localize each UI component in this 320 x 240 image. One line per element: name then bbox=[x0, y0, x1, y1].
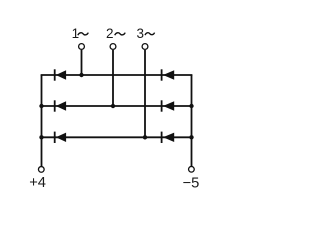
wire: row 2 horizontal bbox=[41, 105, 193, 107]
wire: row 1 horizontal bbox=[41, 74, 193, 76]
diode D4 (row 1 right) bbox=[162, 69, 175, 80]
junction: phase 1 / row 1 bbox=[79, 73, 83, 77]
junction: right bus / row 2 bbox=[189, 104, 193, 108]
svg-text:2: 2 bbox=[106, 26, 114, 41]
terminal 1~ circle bbox=[79, 44, 85, 50]
svg-text:−5: −5 bbox=[183, 175, 200, 191]
diode D1 (row 1 left) bbox=[55, 69, 66, 80]
terminal +4 circle bbox=[38, 167, 44, 173]
wire: phase 3 drop to row 3 bbox=[144, 50, 146, 137]
terminal 3~ circle bbox=[142, 44, 148, 50]
wire: right bus vertical (- rail) bbox=[191, 75, 193, 167]
label 3~ bbox=[137, 26, 155, 41]
wire: row 3 horizontal bbox=[41, 136, 193, 138]
label 1~ bbox=[72, 26, 89, 41]
svg-text:+4: +4 bbox=[29, 175, 46, 191]
diode D6 (row 3 right) bbox=[162, 132, 175, 143]
label 2~ bbox=[106, 26, 125, 41]
junction: phase 3 / row 3 bbox=[143, 135, 147, 139]
diode D5 (row 2 right) bbox=[162, 100, 175, 111]
junction: phase 2 / row 2 bbox=[111, 104, 115, 108]
wire: phase 2 drop to row 2 bbox=[112, 50, 114, 106]
terminal -5 circle bbox=[189, 166, 195, 172]
svg-text:3: 3 bbox=[137, 26, 145, 41]
diode D3 (row 3 left) bbox=[55, 132, 66, 143]
junction: right bus / row 3 bbox=[189, 135, 193, 139]
diode D2 (row 2 left) bbox=[55, 100, 66, 111]
svg-text:1: 1 bbox=[72, 26, 80, 41]
wire: left bus vertical (+ rail) bbox=[41, 75, 43, 167]
terminal 2~ circle bbox=[110, 44, 116, 50]
junction: left bus / row 3 bbox=[39, 135, 43, 139]
wire: phase 1 drop to row 1 bbox=[81, 50, 83, 75]
junction: left bus / row 2 bbox=[39, 104, 43, 108]
